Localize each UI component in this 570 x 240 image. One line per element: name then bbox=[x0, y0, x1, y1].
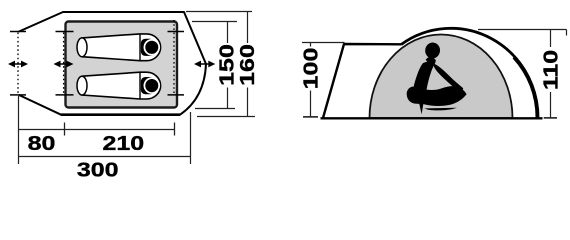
extension line 160 top bbox=[186, 11, 252, 13]
dotted extension line 3 (x=174) bbox=[173, 20, 175, 94]
dimension line 300 bbox=[18, 156, 191, 158]
inner tent rectangle bbox=[66, 22, 178, 108]
dotted extension line 2 (x=63.6) bbox=[63, 33, 65, 95]
dimension line 80/210 bbox=[18, 129, 175, 131]
tick marks bottom bbox=[10, 94, 26, 96]
neck notch back bbox=[421, 57, 427, 64]
dome outline lower-right thickening bbox=[514, 57, 538, 118]
dome outline bbox=[401, 28, 538, 118]
tick at 174.3 bbox=[174, 123, 176, 136]
svg-text:210: 210 bbox=[102, 132, 144, 154]
person silhouette: folded legs mass bbox=[407, 86, 467, 114]
extension/tick line 100 top bbox=[302, 42, 345, 44]
tick 100 bottom bbox=[303, 116, 318, 118]
svg-text:100: 100 bbox=[300, 48, 322, 90]
bottom extension line right (x=190.5) bbox=[190, 112, 192, 164]
tent footprint outline bbox=[19, 12, 206, 115]
dimension line 150 bbox=[227, 22, 229, 44]
neck notch front bbox=[435, 57, 441, 64]
sleeping mat 2 (bottom) bbox=[77, 72, 161, 99]
double arrow 1 bbox=[8, 61, 28, 68]
tick at 64.3 bbox=[64, 123, 66, 136]
tick 110 bottom bbox=[544, 117, 557, 119]
double arrow 3 (at right apex) bbox=[194, 61, 215, 68]
ground line bbox=[321, 117, 543, 119]
extension line 150 top bbox=[192, 21, 237, 23]
tick marks top bbox=[10, 31, 26, 33]
door arch (gray) bbox=[370, 35, 513, 119]
extension line 110 top bbox=[478, 29, 567, 31]
bottom extension line left (x=18) bbox=[18, 96, 20, 164]
dimension line 110 bbox=[550, 30, 552, 48]
110 extension end stub bbox=[566, 30, 568, 36]
svg-text:300: 300 bbox=[77, 159, 119, 181]
person silhouette: arm over knee bbox=[434, 64, 464, 94]
extension line 160 bottom bbox=[197, 116, 255, 118]
svg-text:160: 160 bbox=[236, 44, 258, 86]
tent footprint bottom edge (thicker) bbox=[61, 113, 180, 116]
person silhouette: mat sliver under legs bbox=[424, 108, 457, 111]
tent body fill (vestibule + dome) bbox=[323, 29, 538, 118]
svg-text:80: 80 bbox=[28, 132, 56, 154]
dotted extension line 1 (x=18) bbox=[17, 33, 19, 95]
svg-text:150: 150 bbox=[216, 44, 238, 86]
sleeping mat 1 (top) bbox=[77, 34, 161, 61]
extension line 150 bottom bbox=[195, 108, 235, 110]
vestibule left slope bbox=[323, 44, 401, 118]
double arrow 2 bbox=[54, 61, 74, 68]
person silhouette: torso bbox=[413, 57, 435, 90]
person silhouette: head bbox=[424, 42, 441, 60]
dimension line 100 bbox=[310, 43, 312, 47]
svg-text:110: 110 bbox=[540, 50, 562, 90]
dimension line 160 bbox=[247, 12, 249, 44]
